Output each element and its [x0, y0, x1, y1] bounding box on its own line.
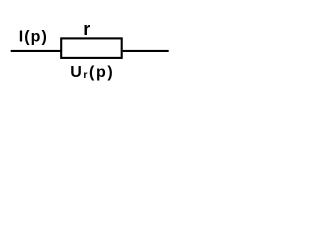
svg-text:Ur(p): Ur(p) — [70, 64, 114, 81]
resistor r body — [61, 38, 121, 58]
wire right terminal — [123, 50, 169, 52]
svg-text:r: r — [83, 19, 90, 39]
svg-text:I(p): I(p) — [19, 29, 48, 46]
wire left terminal — [11, 50, 61, 52]
